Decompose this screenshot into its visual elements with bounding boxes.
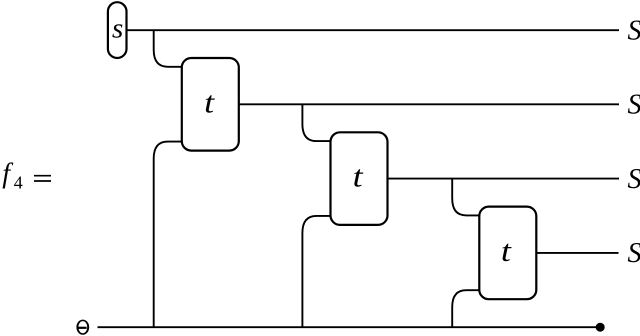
box t2 [331,132,388,225]
box t1 [182,58,239,151]
svg-text:S: S [628,164,640,195]
svg-text:s: s [112,12,123,44]
terminator dot [596,323,605,332]
wire S3 (output of t2 to label S) [388,178,620,180]
wire branch from S3 into t3 [452,179,479,216]
label theta [77,320,88,334]
wire S4 (output of t3 to label S) [536,252,618,254]
wire t1 exit down to theta line [154,142,182,328]
wire t2 exit down to theta line [302,216,330,327]
equals sign [34,175,51,177]
svg-text:4: 4 [14,173,23,193]
wire branch from S2 into t2 [302,104,330,141]
box s [108,2,127,58]
wire S1 (output of s to label S) [127,29,620,31]
svg-text:S: S [628,90,640,121]
svg-text:t: t [204,84,216,119]
wire branch from S1 into t1 [154,30,182,67]
svg-text:f: f [2,158,13,189]
wire t3 exit down to theta line [452,290,479,327]
box t3 [479,207,536,300]
svg-text:t: t [353,159,365,194]
wire S2 (output of t1 to label S) [239,103,619,105]
svg-text:S: S [628,238,640,269]
svg-text:S: S [628,15,640,46]
svg-text:t: t [501,233,513,268]
wire theta line (bottom) [98,326,601,328]
